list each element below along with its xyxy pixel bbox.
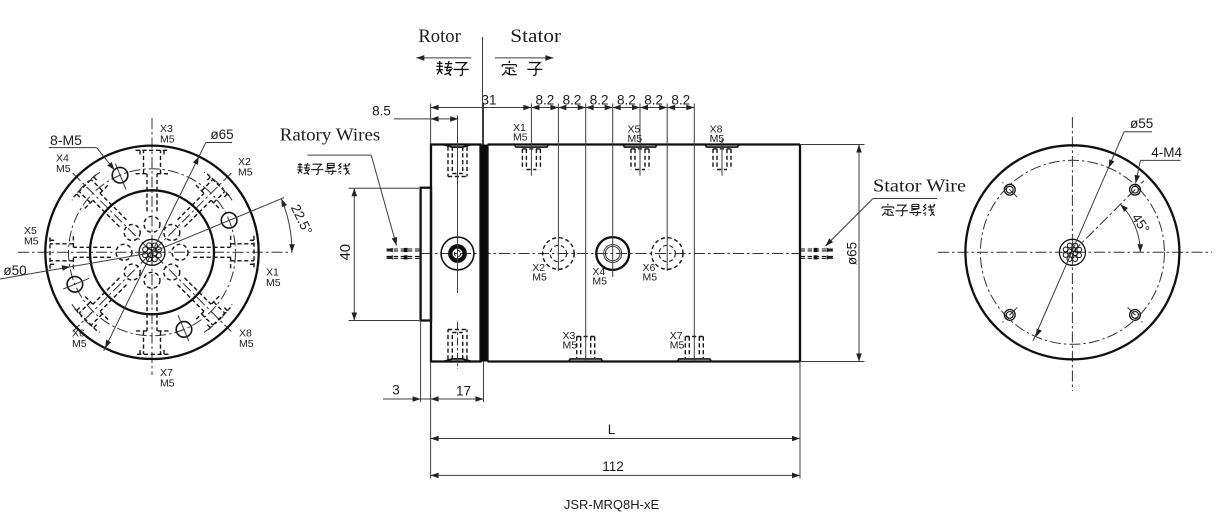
svg-text:M5: M5 xyxy=(563,340,578,352)
svg-text:Ratory Wires: Ratory Wires xyxy=(280,125,381,145)
svg-text:8.5: 8.5 xyxy=(372,104,391,119)
svg-text:Stator Wire: Stator Wire xyxy=(873,176,966,196)
svg-text:M5: M5 xyxy=(532,272,547,284)
svg-text:M5: M5 xyxy=(239,338,254,350)
svg-text:M5: M5 xyxy=(24,235,39,247)
svg-text:L: L xyxy=(608,422,616,437)
svg-text:4-M4: 4-M4 xyxy=(1151,145,1182,160)
svg-text:ø50: ø50 xyxy=(3,263,26,278)
svg-text:M5: M5 xyxy=(238,166,253,178)
svg-text:M5: M5 xyxy=(710,133,725,145)
svg-text:Rotor: Rotor xyxy=(418,26,461,47)
svg-text:17: 17 xyxy=(456,384,471,399)
svg-text:ø55: ø55 xyxy=(1130,116,1153,131)
svg-text:8.2: 8.2 xyxy=(590,92,609,107)
svg-text:8-M5: 8-M5 xyxy=(50,132,82,148)
svg-text:31: 31 xyxy=(481,92,496,107)
svg-text:Stator: Stator xyxy=(510,26,562,47)
svg-text:M5: M5 xyxy=(628,133,643,145)
svg-text:M5: M5 xyxy=(643,272,658,284)
svg-text:M5: M5 xyxy=(160,133,175,145)
svg-text:ø65: ø65 xyxy=(845,242,860,265)
svg-text:3: 3 xyxy=(392,383,400,398)
svg-text:M5: M5 xyxy=(670,340,685,352)
svg-text:M5: M5 xyxy=(72,338,87,350)
svg-text:8.2: 8.2 xyxy=(644,92,663,107)
svg-text:8.2: 8.2 xyxy=(563,92,582,107)
svg-text:JSR-MRQ8H-xE: JSR-MRQ8H-xE xyxy=(564,497,660,512)
svg-text:8.2: 8.2 xyxy=(536,92,555,107)
svg-text:8.2: 8.2 xyxy=(617,92,636,107)
svg-text:M5: M5 xyxy=(266,277,281,289)
svg-text:M5: M5 xyxy=(56,163,71,175)
svg-text:ø65: ø65 xyxy=(210,127,233,142)
svg-text:112: 112 xyxy=(602,459,624,474)
svg-text:M5: M5 xyxy=(592,276,607,288)
svg-text:M5: M5 xyxy=(513,132,528,144)
svg-text:8.2: 8.2 xyxy=(671,92,690,107)
svg-text:M5: M5 xyxy=(160,377,175,389)
svg-text:40: 40 xyxy=(337,244,354,261)
